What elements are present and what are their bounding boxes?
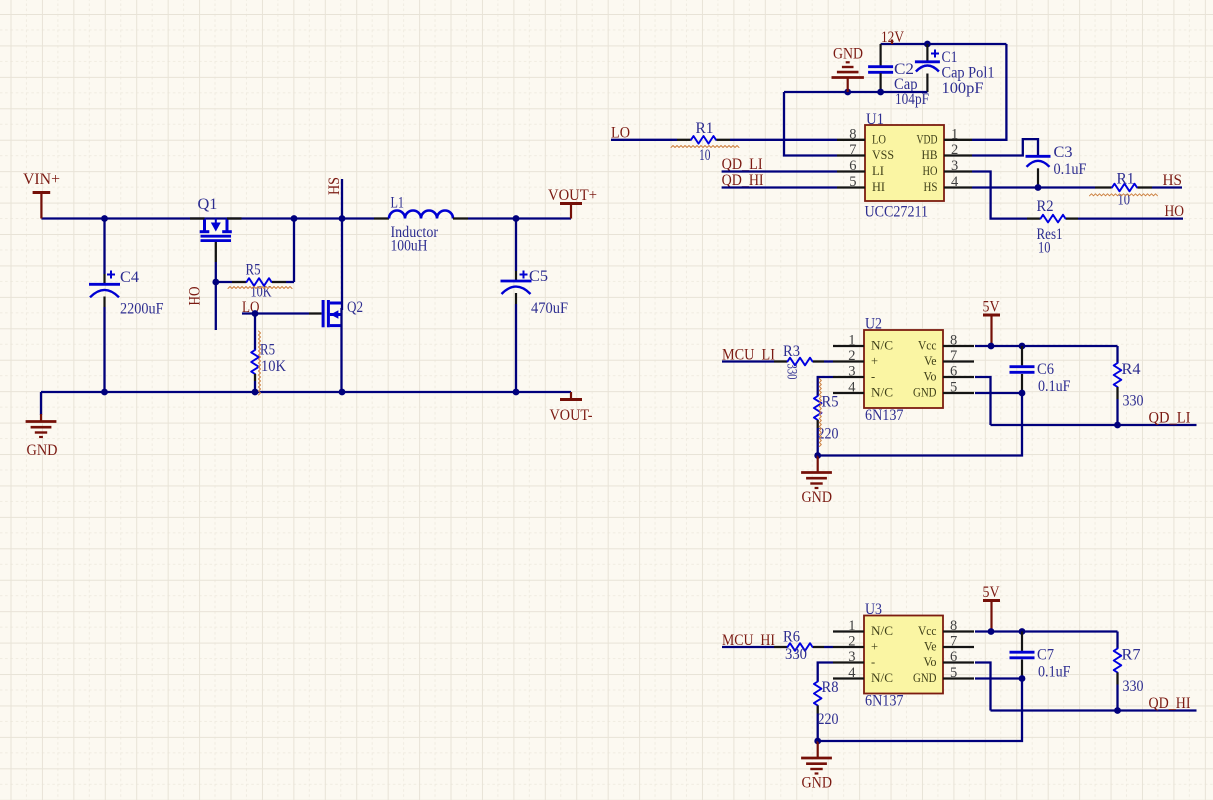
resistor R5 220 (814, 396, 822, 420)
junction R5 bottom (814, 452, 821, 459)
power port VOUT+ (560, 202, 582, 205)
capacitor C6 (1021, 346, 1023, 365)
svg-text:Ve: Ve (924, 640, 937, 654)
ground GND under U3 (817, 741, 819, 757)
svg-text:C4: C4 (120, 269, 139, 286)
power port 12V (891, 40, 893, 45)
svg-text:HS: HS (924, 180, 938, 194)
junction 12V C1 (924, 41, 931, 48)
svg-text:HS: HS (326, 177, 343, 195)
svg-text:Q2: Q2 (347, 299, 363, 316)
wire R1 to HS label (1138, 186, 1153, 188)
wire QD_HI to pin 5 (722, 186, 837, 188)
svg-text:GND: GND (913, 671, 937, 685)
svg-text:8: 8 (950, 333, 957, 349)
power port VIN+ (33, 191, 51, 194)
capacitor C3 (1026, 155, 1051, 158)
wire pin3 down to R5 (818, 377, 833, 396)
svg-text:R2: R2 (1037, 198, 1054, 215)
warning squiggle under R5 (228, 287, 292, 289)
wire Vcc rail pin8 (975, 345, 1118, 347)
wire QD_LI to pin 6 (722, 170, 837, 172)
wire LO to Q2 gate (242, 312, 309, 314)
svg-text:Vcc: Vcc (918, 339, 937, 353)
wire top rail VIN+ to VOUT+ (41, 217, 374, 219)
wire 12V rail top (881, 43, 1007, 45)
svg-text:R4: R4 (1122, 361, 1141, 378)
svg-text:QD_HI: QD_HI (1149, 695, 1191, 712)
junction R8 bottom (814, 738, 821, 745)
svg-text:+: + (871, 640, 878, 654)
svg-text:R5: R5 (822, 394, 839, 411)
capacitor C1 (926, 44, 928, 61)
junction C2 bottom (877, 89, 884, 96)
svg-text:HI: HI (872, 180, 885, 194)
svg-text:R5: R5 (246, 262, 261, 279)
svg-text:GND: GND (833, 46, 863, 63)
wire VSS to GND bus (784, 92, 837, 156)
svg-text:5: 5 (950, 665, 957, 681)
ground GND under U2 (817, 456, 819, 472)
svg-text:R8: R8 (822, 679, 839, 696)
junction Q1 gate R5 (212, 279, 219, 286)
svg-text:6: 6 (950, 364, 957, 380)
junction GND symbol (844, 89, 851, 96)
junction LO R5 (252, 310, 259, 317)
wire Vo pin6 down to QD_HI (975, 663, 991, 711)
capacitor C5 (515, 219, 517, 272)
junction R5 bottom (252, 389, 259, 396)
wire Vo pin6 down to QD_LI (975, 377, 991, 425)
transistor Q2 (322, 300, 342, 327)
svg-text:10: 10 (699, 147, 711, 164)
svg-text:2200uF: 2200uF (120, 301, 164, 318)
wire HS node vertical (341, 179, 343, 310)
svg-text:10K: 10K (261, 358, 287, 375)
resistor R8 220 (814, 682, 822, 706)
svg-text:R5: R5 (260, 342, 275, 359)
svg-text:QD_LI: QD_LI (1149, 410, 1191, 427)
svg-text:470uF: 470uF (531, 300, 568, 317)
svg-text:C6: C6 (1037, 361, 1054, 378)
svg-text:220: 220 (818, 711, 839, 728)
wire R1 to pin 8 (717, 139, 731, 141)
wire R5 to source rail (293, 219, 295, 283)
wire Q1 drain source bent pins (black) (190, 217, 205, 219)
resistor R6 input (788, 643, 813, 651)
svg-text:VIN+: VIN+ (23, 171, 60, 188)
svg-text:8: 8 (849, 126, 856, 142)
wire GND drop left (40, 392, 42, 415)
svg-text:HS: HS (1163, 172, 1183, 189)
wire HO pin3 to R2 (972, 172, 1027, 219)
svg-text:LO: LO (872, 132, 886, 146)
resistor R7 330 (1116, 632, 1118, 649)
svg-text:100pF: 100pF (942, 80, 984, 97)
wire GND pin5 to ground bus (818, 679, 1022, 742)
wire Vcc rail pin8 (975, 630, 1118, 632)
ground GND (inverted) near U1 (847, 78, 849, 92)
wire HB pin2 to C3 (972, 139, 1038, 156)
wire MCU_LI to R3 (722, 360, 774, 362)
wire pin3 down to R8 (818, 663, 833, 682)
svg-text:6: 6 (849, 158, 856, 174)
svg-text:N/C: N/C (871, 671, 893, 685)
wire HS pin4 to R1 right (972, 186, 1095, 188)
svg-text:4: 4 (848, 665, 856, 681)
svg-text:2: 2 (848, 634, 855, 650)
power port 5V (983, 314, 1000, 317)
wire net QD_HI (991, 709, 1197, 711)
svg-text:1: 1 (951, 126, 958, 142)
svg-text:N/C: N/C (871, 386, 893, 400)
svg-text:GND: GND (802, 775, 833, 792)
svg-text:4: 4 (951, 174, 959, 190)
svg-text:Q1: Q1 (198, 196, 218, 213)
wire MCU_HI to R6 (722, 646, 774, 648)
svg-text:UCC27211: UCC27211 (865, 204, 929, 221)
inductor L1 (374, 217, 389, 219)
svg-text:2: 2 (951, 142, 958, 158)
svg-text:Cap Pol1: Cap Pol1 (942, 65, 995, 82)
svg-text:L1: L1 (391, 195, 405, 212)
IC U2 6N137 (833, 330, 974, 408)
svg-text:R1: R1 (696, 120, 714, 137)
svg-text:330: 330 (1123, 678, 1144, 695)
warning squiggle under R1 (671, 146, 739, 148)
svg-text:5V: 5V (983, 584, 1001, 601)
wire Q2 source to bottom rail (340, 308, 342, 392)
wire GND bus under caps (784, 91, 927, 93)
svg-text:VSS: VSS (872, 148, 894, 162)
svg-text:VOUT-: VOUT- (550, 407, 593, 424)
svg-text:VOUT+: VOUT+ (548, 187, 597, 204)
junction 5V (988, 343, 995, 350)
resistor R3 input (788, 358, 813, 366)
svg-text:LI: LI (872, 164, 884, 178)
svg-text:Vcc: Vcc (918, 624, 937, 638)
ground GND left (40, 414, 42, 422)
warning squiggle along R5 (819, 379, 821, 447)
svg-text:3: 3 (848, 649, 855, 665)
svg-text:0.1uF: 0.1uF (1038, 378, 1071, 395)
svg-text:12V: 12V (881, 29, 905, 46)
wire R2 to HO label (1066, 217, 1078, 219)
junction 5V (988, 628, 995, 635)
resistor R4 330 (1116, 346, 1118, 363)
svg-text:7: 7 (950, 348, 957, 364)
svg-text:0.1uF: 0.1uF (1038, 664, 1071, 681)
svg-text:N/C: N/C (871, 339, 893, 353)
wire GND pin5 to ground bus (818, 393, 1022, 456)
svg-text:GND: GND (27, 442, 58, 459)
resistor R2 (1041, 215, 1066, 223)
svg-text:6: 6 (950, 649, 957, 665)
svg-text:GND: GND (802, 489, 833, 506)
svg-text:Ve: Ve (924, 354, 937, 368)
svg-text:5: 5 (950, 380, 957, 396)
capacitor C2 (879, 44, 881, 66)
svg-text:0.1uF: 0.1uF (1054, 161, 1087, 178)
resistor R5 pulldown vertical (254, 314, 256, 351)
svg-text:HO: HO (187, 287, 204, 306)
svg-text:+: + (871, 354, 878, 368)
svg-text:10K: 10K (251, 284, 273, 301)
svg-text:8: 8 (950, 618, 957, 634)
svg-text:C1: C1 (942, 49, 958, 66)
wire net QD_LI (991, 424, 1197, 426)
svg-text:R7: R7 (1122, 647, 1141, 664)
junction R7 QD_HI (1114, 707, 1121, 714)
capacitor C4 (103, 219, 105, 275)
svg-text:-: - (871, 370, 875, 384)
svg-text:R1: R1 (1117, 171, 1135, 188)
resistor R1 right (1112, 184, 1137, 192)
svg-text:1: 1 (848, 333, 855, 349)
svg-text:5V: 5V (983, 299, 1001, 316)
junction R4 QD_LI (1114, 422, 1121, 429)
svg-text:R6: R6 (783, 629, 800, 646)
svg-text:330: 330 (1123, 393, 1144, 410)
svg-text:C7: C7 (1037, 647, 1054, 664)
svg-text:330: 330 (785, 646, 807, 663)
warning squiggle along R5 (259, 331, 261, 395)
svg-text:R3: R3 (783, 343, 800, 360)
junction C7 top (1019, 628, 1026, 635)
svg-text:HO: HO (1165, 203, 1185, 220)
svg-text:Vo: Vo (924, 655, 937, 669)
svg-text:U2: U2 (865, 316, 882, 333)
IC U1 UCC27211 (837, 125, 972, 201)
wire VDD pin1 to 12V (972, 44, 1006, 140)
junction C6 bottom pin5 (1019, 390, 1026, 397)
junction C7 bottom pin5 (1019, 675, 1026, 682)
junction HS rail (339, 215, 346, 222)
svg-text:C5: C5 (529, 268, 548, 285)
junction C6 top (1019, 343, 1026, 350)
svg-text:3: 3 (848, 364, 855, 380)
wire Q1 gate to HO (215, 242, 217, 262)
junction C4 bottom (101, 389, 108, 396)
junction rail R5 (291, 215, 298, 222)
junction C5 top (513, 215, 520, 222)
svg-text:5: 5 (849, 174, 856, 190)
junction C5 bottom (513, 389, 520, 396)
svg-text:2: 2 (848, 348, 855, 364)
svg-text:VDD: VDD (917, 132, 938, 146)
junction Q2 source bottom (339, 389, 346, 396)
wire LO to R1 (611, 139, 677, 141)
svg-text:100uH: 100uH (391, 238, 428, 255)
warning squiggle under R1 right (1090, 194, 1158, 196)
wire bottom rail GND to VOUT- (41, 391, 571, 393)
svg-text:HO: HO (923, 164, 938, 178)
svg-text:C3: C3 (1054, 144, 1073, 161)
junction C3 HS (1035, 184, 1042, 191)
svg-text:3: 3 (951, 158, 958, 174)
svg-text:7: 7 (849, 142, 856, 158)
IC U3 6N137 (833, 616, 974, 694)
power port VOUT- (570, 392, 572, 400)
capacitor C7 (1021, 632, 1023, 651)
svg-text:-: - (871, 655, 875, 669)
svg-text:104pF: 104pF (895, 91, 929, 108)
svg-text:N/C: N/C (871, 624, 893, 638)
svg-text:U3: U3 (865, 601, 882, 618)
svg-text:4: 4 (848, 380, 856, 396)
svg-text:330: 330 (784, 364, 800, 380)
junction C4 top (101, 215, 108, 222)
svg-text:7: 7 (950, 634, 957, 650)
transistor Q1 (200, 219, 232, 243)
svg-text:10: 10 (1038, 240, 1051, 257)
svg-text:6N137: 6N137 (865, 407, 904, 424)
resistor R5 gate of Q1 (216, 281, 232, 283)
power port 5V (983, 599, 1000, 602)
svg-text:6N137: 6N137 (865, 693, 904, 710)
svg-text:Vo: Vo (924, 370, 937, 384)
svg-text:GND: GND (913, 386, 937, 400)
resistor R1 (691, 136, 716, 144)
svg-text:U1: U1 (866, 111, 884, 128)
svg-text:HB: HB (922, 148, 938, 162)
svg-text:1: 1 (848, 618, 855, 634)
